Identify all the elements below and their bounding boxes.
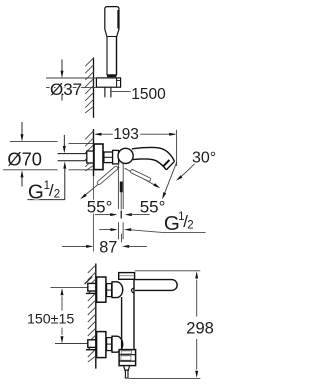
svg-text:1500: 1500 <box>131 86 166 103</box>
svg-text:30°: 30° <box>192 149 216 166</box>
svg-text:Ø37: Ø37 <box>50 80 82 99</box>
svg-text:Ø70: Ø70 <box>7 148 42 169</box>
svg-text:55°: 55° <box>87 198 113 217</box>
svg-text:193: 193 <box>113 126 139 143</box>
svg-text:298: 298 <box>186 320 214 338</box>
svg-text:87: 87 <box>99 238 117 256</box>
svg-text:150±15: 150±15 <box>27 311 74 327</box>
svg-text:G: G <box>28 181 44 204</box>
svg-text:55°: 55° <box>140 197 166 216</box>
svg-text:2: 2 <box>54 189 60 201</box>
svg-text:2: 2 <box>187 219 193 231</box>
